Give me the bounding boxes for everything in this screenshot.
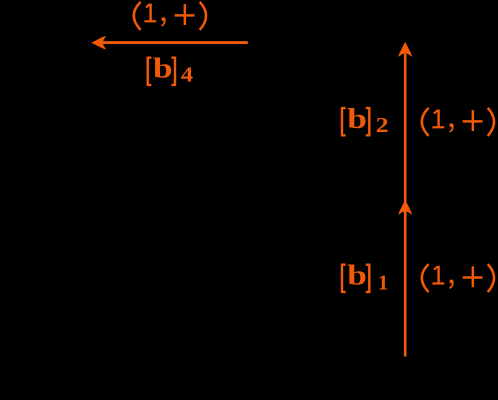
arrowhead: top arrow b4 (points left) bbox=[91, 36, 106, 49]
arrowhead: arrow b1 (middle, points up) bbox=[398, 200, 412, 215]
svg-text:2: 2 bbox=[376, 113, 389, 137]
wire: top arrow b4 shaft bbox=[102, 41, 248, 44]
label (1,+) right lower bbox=[422, 264, 494, 292]
arrowhead: arrow b2 (top, points up) bbox=[398, 42, 412, 57]
svg-text:b: b bbox=[347, 261, 367, 292]
label [b]4 top bbox=[148, 54, 194, 87]
label [b]1 right lower bbox=[342, 261, 388, 295]
wire: right vertical shaft (arrows b1 and b2) bbox=[404, 54, 407, 357]
svg-text:4: 4 bbox=[181, 63, 194, 87]
svg-text:b: b bbox=[347, 104, 367, 135]
svg-text:b: b bbox=[153, 54, 173, 85]
label (1,+) top bbox=[134, 2, 206, 30]
svg-text:1: 1 bbox=[378, 270, 389, 294]
label [b]2 right upper bbox=[342, 104, 389, 137]
label (1,+) right upper bbox=[422, 108, 494, 136]
